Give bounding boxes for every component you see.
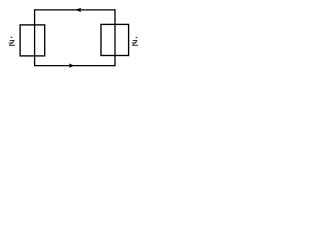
wire right vertical conductor — [114, 9, 116, 66]
wire top conductor — [35, 9, 115, 11]
wire left vertical conductor — [34, 9, 36, 66]
impedance box Z2 (right) — [101, 24, 129, 55]
impedance box Z1 (left) — [20, 25, 45, 56]
label z (right impedance) — [132, 37, 138, 46]
wire bottom conductor — [35, 65, 115, 67]
label z (left impedance) — [9, 37, 15, 46]
arrow current direction on top wire (pointing left) — [75, 8, 81, 12]
arrow current direction on bottom wire (pointing right) — [69, 64, 75, 68]
